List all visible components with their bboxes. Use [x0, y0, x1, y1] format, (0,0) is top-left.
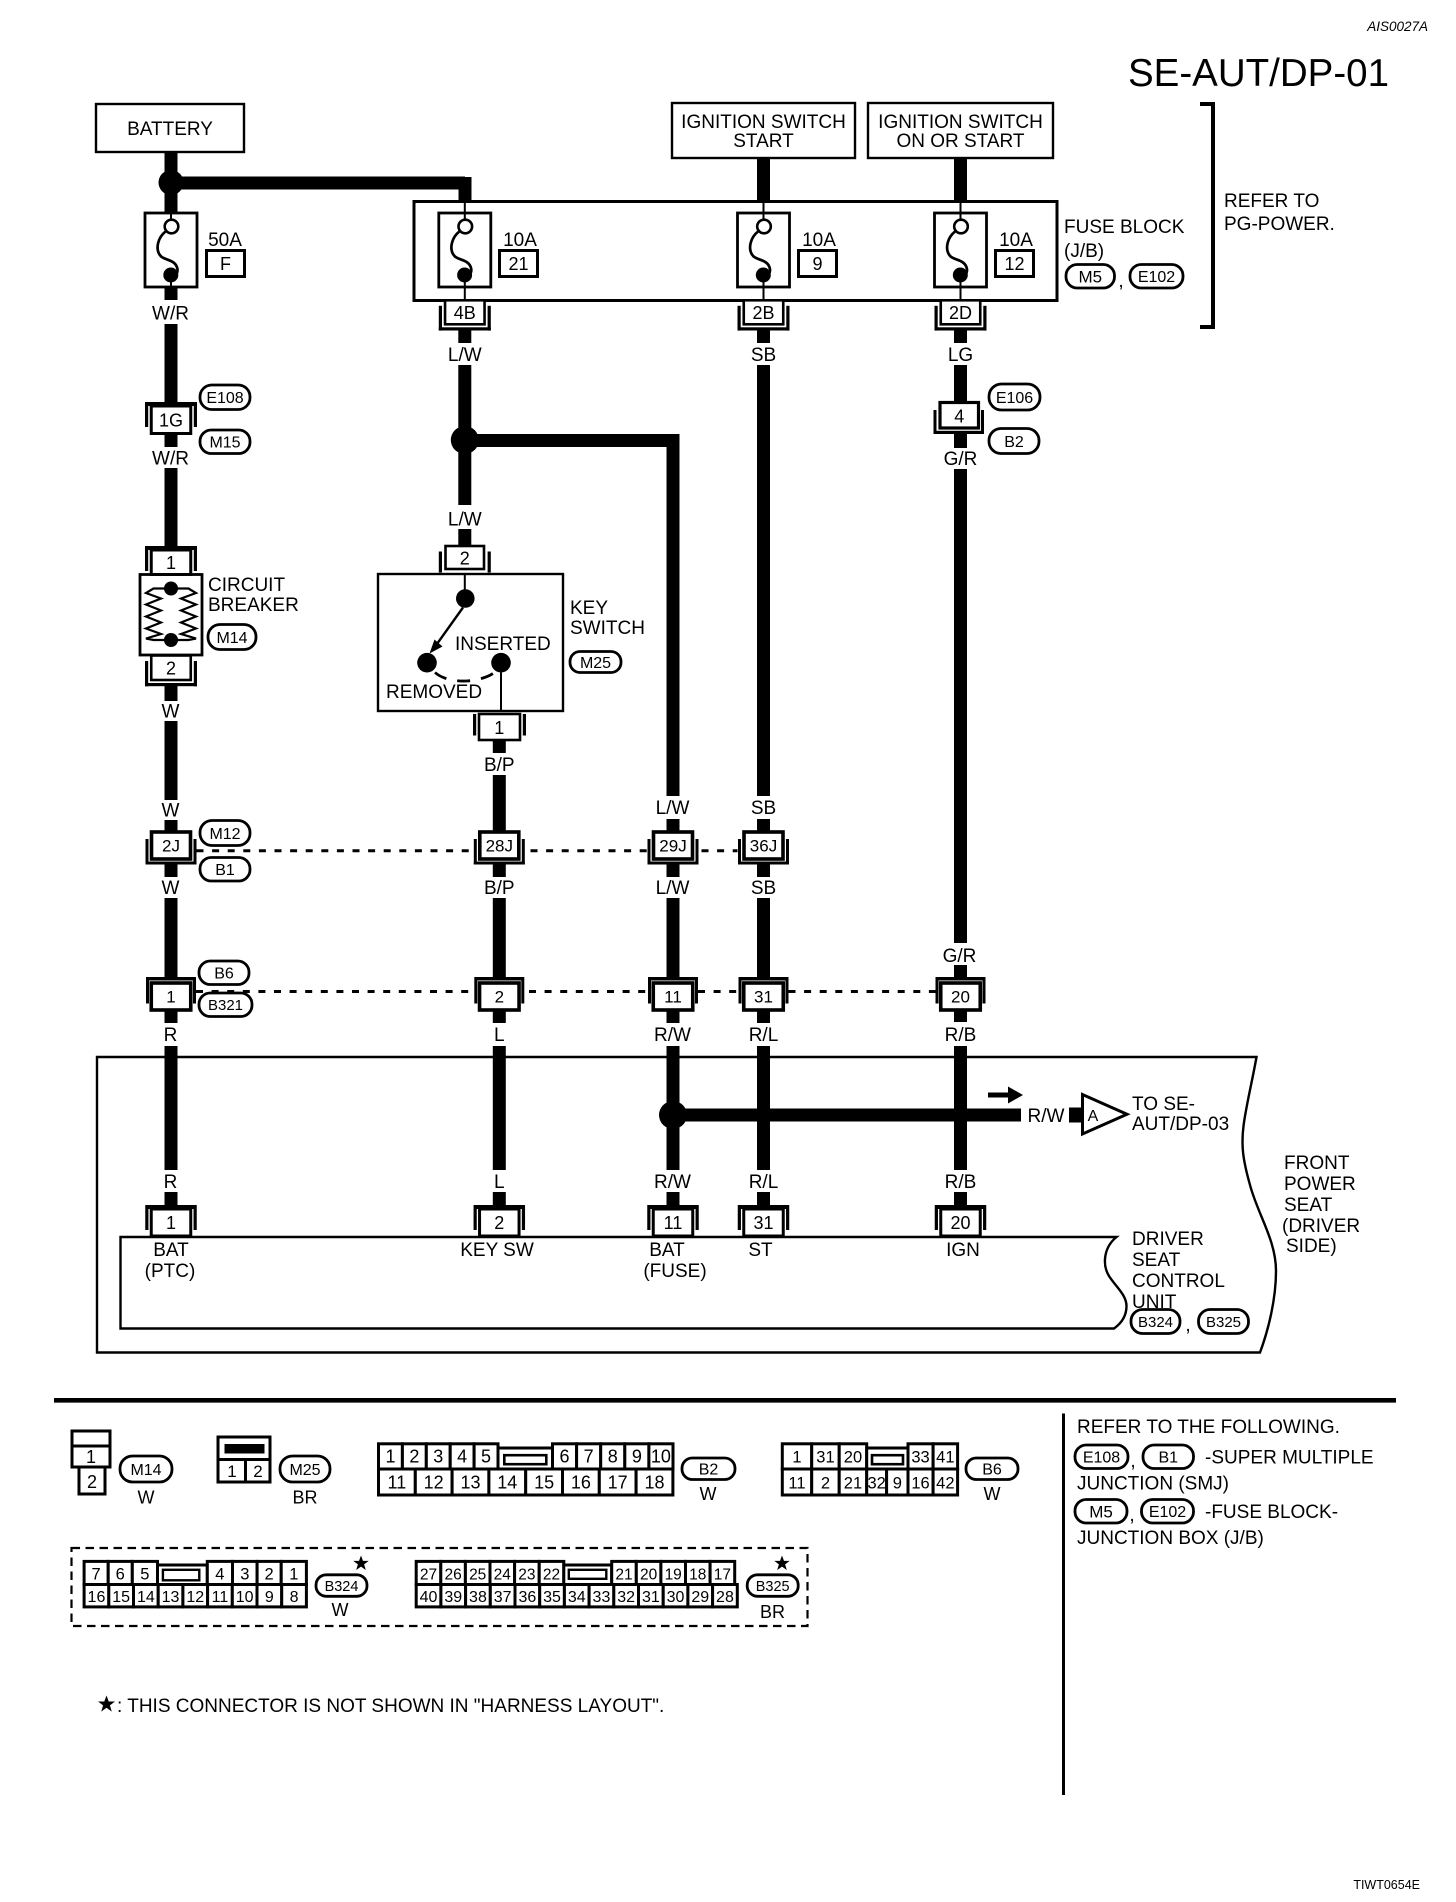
svg-text:R/W: R/W: [1028, 1106, 1065, 1127]
svg-text:2D: 2D: [949, 303, 972, 323]
svg-text:36: 36: [518, 1589, 536, 1606]
svg-text:B325: B325: [1206, 1314, 1241, 1331]
wire L/W down to junction: [458, 365, 471, 440]
seat connector 11: [647, 1205, 699, 1236]
svg-text:6: 6: [116, 1565, 125, 1583]
vertical separator: [1062, 1414, 1065, 1796]
svg-text:28J: 28J: [486, 837, 513, 856]
svg-text:W/R: W/R: [152, 304, 189, 325]
svg-text:FUSE BLOCK: FUSE BLOCK: [1064, 217, 1185, 238]
svg-text:4B: 4B: [454, 303, 476, 323]
wire stub below connector 31: [757, 1010, 770, 1023]
svg-text:TIWT0654E: TIWT0654E: [1353, 1878, 1420, 1892]
wire B/P to connector 2: [493, 898, 506, 978]
wire stub above 36J: [757, 819, 770, 833]
svg-text:11: 11: [212, 1589, 229, 1606]
svg-text:E108: E108: [206, 390, 243, 407]
svg-text:2B: 2B: [752, 303, 774, 323]
wire R/B inside: [954, 1057, 967, 1170]
svg-text:33: 33: [593, 1589, 611, 1606]
svg-text:34: 34: [568, 1589, 586, 1606]
wire W/R stub below fusible link: [165, 287, 178, 300]
svg-text:BR: BR: [292, 1488, 317, 1508]
svg-text:42: 42: [936, 1474, 954, 1492]
connector oval B1: [200, 858, 250, 882]
wire battery to junction: [165, 152, 178, 172]
svg-text:BAT: BAT: [153, 1240, 189, 1261]
wire R/W inside: [667, 1057, 680, 1170]
svg-text:PG-POWER.: PG-POWER.: [1224, 214, 1335, 235]
svg-text:B2: B2: [699, 1462, 719, 1479]
svg-text:2: 2: [494, 1213, 504, 1233]
wire SB below 2B: [757, 331, 770, 344]
svg-text:41: 41: [936, 1449, 954, 1467]
wire stub above seat conn 20: [954, 1192, 967, 1206]
wire stub below 1G: [165, 434, 178, 448]
wire L/W below 4B: [458, 331, 471, 344]
wire stub above seat conn 31: [757, 1192, 770, 1206]
svg-text:M14: M14: [216, 630, 247, 647]
svg-text:M25: M25: [580, 655, 611, 672]
connector oval B6 list: [966, 1458, 1018, 1480]
svg-text:39: 39: [444, 1589, 462, 1606]
junction dot L/W branch: [451, 426, 479, 454]
wire W to connector 1: [165, 898, 178, 978]
svg-text:INSERTED: INSERTED: [455, 634, 551, 655]
ignition switch start box: [672, 103, 855, 158]
svg-text:R/W: R/W: [654, 1172, 691, 1193]
connector 4B: [464, 287, 466, 300]
svg-text:1: 1: [494, 718, 504, 738]
connector oval M5: [1066, 265, 1115, 289]
wire stub above seat conn 11: [667, 1192, 680, 1206]
wire stub below SMJ 4: [954, 434, 967, 448]
svg-text:,: ,: [1118, 271, 1123, 292]
svg-text:21: 21: [615, 1566, 632, 1583]
label box 12: [996, 251, 1034, 277]
svg-text:36J: 36J: [750, 837, 777, 856]
svg-text:W: W: [332, 1600, 349, 1620]
fuse 9 10A: [738, 202, 790, 288]
svg-text:(PTC): (PTC): [145, 1261, 196, 1282]
svg-text:,: ,: [1129, 1505, 1134, 1526]
svg-text:13: 13: [460, 1472, 480, 1492]
svg-text:SB: SB: [751, 798, 776, 819]
wire branch to right and down: [465, 434, 673, 450]
svg-text:2: 2: [166, 658, 176, 678]
wire W down: [165, 721, 178, 800]
svg-text:REFER TO THE FOLLOWING.: REFER TO THE FOLLOWING.: [1077, 1417, 1340, 1438]
SMJ junction 2J: [146, 832, 197, 865]
svg-text:(FUSE): (FUSE): [643, 1261, 706, 1282]
connector 2 key switch: [439, 546, 491, 573]
SMJ junction 1: [146, 977, 196, 1010]
connector B2 pinout: [379, 1444, 674, 1495]
svg-text:IGNITION SWITCH: IGNITION SWITCH: [681, 112, 846, 133]
svg-text:W: W: [984, 1484, 1001, 1504]
svg-text:: THIS CONNECTOR IS NOT SHOWN: : THIS CONNECTOR IS NOT SHOWN IN "HARNES…: [117, 1696, 664, 1717]
wire L inside: [493, 1057, 506, 1170]
svg-text:R/B: R/B: [945, 1172, 977, 1193]
svg-text:19: 19: [665, 1566, 682, 1583]
connector B6 pinout: [782, 1444, 957, 1495]
svg-text:L/W: L/W: [656, 798, 690, 819]
svg-text:CIRCUIT: CIRCUIT: [208, 575, 285, 596]
svg-text:31: 31: [816, 1449, 834, 1467]
SMJ junction 2: [474, 977, 524, 1010]
label FUSE BLOCK (J/B): [1064, 217, 1185, 262]
svg-text:M25: M25: [289, 1462, 320, 1479]
seat connector 2: [474, 1205, 526, 1236]
svg-text:20: 20: [844, 1449, 862, 1467]
svg-text:W: W: [162, 702, 180, 723]
svg-text:10: 10: [236, 1589, 254, 1606]
svg-text:27: 27: [420, 1566, 437, 1583]
svg-text:TO SE-: TO SE-: [1132, 1094, 1195, 1115]
svg-text:L/W: L/W: [656, 878, 690, 899]
junction dot battery feed: [159, 170, 184, 195]
wire R into seat box: [165, 1046, 178, 1058]
svg-text:1: 1: [166, 1213, 176, 1233]
wire stub above 20: [954, 965, 967, 978]
front power seat box: [97, 1057, 1276, 1353]
svg-text:31: 31: [642, 1589, 660, 1606]
svg-text:BREAKER: BREAKER: [208, 595, 299, 616]
wire stub above key switch connector: [458, 529, 471, 546]
wire B/P down to 28J: [493, 775, 506, 833]
svg-text:,: ,: [1130, 1451, 1135, 1472]
svg-text:10: 10: [651, 1447, 671, 1467]
wire R/B into seat box: [954, 1046, 967, 1058]
wire battery junction to fuse 21 branch: [176, 177, 465, 202]
svg-text:BATTERY: BATTERY: [127, 119, 213, 140]
wire stub above 2J: [165, 820, 178, 833]
svg-text:5: 5: [481, 1447, 491, 1467]
footnote star: [98, 1696, 115, 1712]
label box 21: [500, 251, 538, 277]
svg-text:BR: BR: [760, 1602, 785, 1622]
svg-text:1: 1: [792, 1449, 801, 1467]
connector oval E106: [989, 384, 1040, 410]
svg-text:11: 11: [788, 1474, 805, 1492]
connector oval E102: [1130, 265, 1183, 289]
svg-text:R/L: R/L: [749, 1025, 779, 1046]
connector 2D: [960, 287, 962, 300]
svg-text:10A: 10A: [503, 230, 537, 251]
svg-text:30: 30: [667, 1589, 685, 1606]
wire G/R long down: [954, 469, 967, 943]
fuse 12 10A: [935, 202, 987, 288]
label KEY SWITCH: [570, 598, 645, 639]
svg-text:B324: B324: [325, 1579, 359, 1595]
svg-text:B6: B6: [982, 1462, 1002, 1479]
wire stub below 2J: [165, 864, 178, 877]
svg-text:-SUPER MULTIPLE: -SUPER MULTIPLE: [1205, 1448, 1374, 1469]
wire stub above seat conn 2: [493, 1192, 506, 1206]
driver seat control unit box: [121, 1237, 1127, 1329]
svg-text:R/L: R/L: [749, 1172, 779, 1193]
ignition switch on-or-start box: [868, 103, 1053, 158]
svg-text:B/P: B/P: [484, 755, 515, 776]
svg-text:AUT/DP-03: AUT/DP-03: [1132, 1114, 1229, 1135]
svg-text:M5: M5: [1089, 1502, 1113, 1521]
svg-text:4: 4: [457, 1447, 467, 1467]
connector oval B1 legend: [1143, 1445, 1194, 1469]
svg-text:9: 9: [265, 1589, 274, 1606]
connector oval B325 list: [747, 1575, 798, 1597]
svg-text:M14: M14: [130, 1462, 161, 1479]
wire ignition start to fuse block: [757, 158, 770, 202]
label TO SE-AUT/DP-03: [1132, 1094, 1229, 1135]
svg-text:15: 15: [534, 1472, 554, 1492]
svg-text:R/B: R/B: [945, 1025, 977, 1046]
bracket refer to PG-POWER: [1200, 104, 1213, 327]
connector M14 pinout: [72, 1431, 110, 1494]
wire R/W into seat box: [667, 1046, 680, 1058]
svg-text:9: 9: [812, 254, 822, 274]
svg-text:2: 2: [821, 1474, 830, 1492]
SMJ junction 29J: [648, 832, 699, 865]
connector oval B324 list: [316, 1575, 367, 1597]
svg-text:SIDE): SIDE): [1286, 1236, 1337, 1257]
svg-text:JUNCTION (SMJ): JUNCTION (SMJ): [1077, 1474, 1229, 1495]
svg-text:1: 1: [289, 1565, 298, 1583]
junction dot R/W takeoff: [659, 1101, 687, 1129]
svg-text:17: 17: [714, 1566, 731, 1583]
svg-text:15: 15: [112, 1589, 130, 1606]
svg-text:2: 2: [87, 1472, 97, 1492]
seat connector 1: [145, 1205, 197, 1236]
wire stub above 29J: [667, 819, 680, 833]
svg-text:L: L: [494, 1025, 505, 1046]
wire B/P stub: [493, 740, 506, 753]
star B324: [353, 1556, 368, 1571]
wire W/R to circuit breaker: [165, 468, 178, 546]
svg-text:1: 1: [166, 553, 176, 573]
seat connector 31: [738, 1205, 790, 1236]
wire L/W branch down: [667, 447, 680, 796]
wire SB down: [757, 365, 770, 796]
svg-text:ST: ST: [748, 1240, 773, 1261]
svg-text:IGN: IGN: [946, 1240, 980, 1261]
svg-text:22: 22: [543, 1566, 560, 1583]
wire stub below 28J: [493, 864, 506, 877]
svg-text:E108: E108: [1083, 1450, 1120, 1467]
svg-text:AIS0027A: AIS0027A: [1366, 19, 1428, 34]
svg-text:B1: B1: [215, 862, 235, 879]
connector oval E102 legend: [1142, 1500, 1194, 1524]
svg-text:1: 1: [166, 988, 175, 1007]
SMJ junction 31: [739, 977, 789, 1010]
svg-text:23: 23: [518, 1566, 535, 1583]
wire R/L into seat box: [757, 1046, 770, 1058]
svg-text:6: 6: [560, 1447, 570, 1467]
off-page triangle A to SE-AUT/DP-03: [1083, 1095, 1128, 1135]
svg-text:B1: B1: [1158, 1450, 1178, 1467]
label BAT (PTC): [145, 1240, 196, 1282]
svg-text:W: W: [162, 878, 180, 899]
svg-text:W: W: [700, 1484, 717, 1504]
svg-text:A: A: [1088, 1108, 1099, 1125]
wire L/W to key switch: [458, 450, 471, 505]
connector oval B2 list: [682, 1458, 735, 1480]
connector M25 pinout: [218, 1437, 270, 1482]
circuit breaker M14 box: [140, 575, 202, 656]
svg-text:4: 4: [215, 1565, 224, 1583]
svg-text:16: 16: [88, 1589, 106, 1606]
svg-text:8: 8: [608, 1447, 618, 1467]
wire R inside: [165, 1057, 178, 1170]
svg-text:L/W: L/W: [448, 510, 482, 531]
SMJ connector 1G: [145, 402, 197, 434]
connector oval M15: [200, 430, 250, 454]
svg-text:B2: B2: [1004, 434, 1024, 451]
connector B324 pinout: [84, 1561, 306, 1607]
wire LG below 2D: [954, 331, 967, 344]
label CIRCUIT BREAKER: [208, 575, 299, 616]
label SUPER MULTIPLE JUNCTION: [1077, 1448, 1374, 1495]
label BAT (FUSE): [643, 1240, 706, 1282]
svg-text:20: 20: [640, 1566, 658, 1583]
svg-text:9: 9: [893, 1474, 902, 1492]
svg-text:1G: 1G: [159, 410, 183, 430]
horizontal separator: [54, 1398, 1396, 1403]
svg-text:B324: B324: [1138, 1314, 1173, 1331]
svg-text:37: 37: [494, 1589, 512, 1606]
connector oval B2 smj: [989, 429, 1039, 454]
svg-text:M15: M15: [209, 435, 240, 452]
svg-text:16: 16: [571, 1472, 591, 1492]
svg-text:SB: SB: [751, 878, 776, 899]
svg-text:2: 2: [409, 1447, 419, 1467]
svg-text:8: 8: [290, 1589, 299, 1606]
wire L/W to connector 11: [667, 898, 680, 978]
svg-text:JUNCTION BOX (J/B): JUNCTION BOX (J/B): [1077, 1528, 1264, 1549]
svg-text:-FUSE BLOCK-: -FUSE BLOCK-: [1205, 1502, 1338, 1523]
svg-text:10A: 10A: [802, 230, 836, 251]
wire stub below 29J: [667, 864, 680, 877]
label DRIVER SEAT CONTROL UNIT: [1132, 1229, 1225, 1313]
svg-text:7: 7: [584, 1447, 594, 1467]
svg-text:B325: B325: [756, 1579, 790, 1595]
wire L into seat box: [493, 1046, 506, 1058]
svg-text:1: 1: [227, 1462, 236, 1481]
connector 2B: [763, 287, 765, 300]
svg-text:10A: 10A: [999, 230, 1033, 251]
connector oval M25 list: [280, 1456, 330, 1482]
svg-text:SWITCH: SWITCH: [570, 618, 645, 639]
svg-text:1: 1: [385, 1447, 395, 1467]
wire stub below connector 20: [954, 1009, 967, 1023]
svg-text:B321: B321: [208, 997, 243, 1014]
svg-text:2J: 2J: [162, 837, 180, 856]
wire stub below 36J: [757, 864, 770, 877]
svg-text:POWER: POWER: [1284, 1174, 1356, 1195]
svg-text:E102: E102: [1149, 1504, 1186, 1521]
svg-text:BAT: BAT: [649, 1240, 685, 1261]
svg-text:ON OR START: ON OR START: [896, 131, 1024, 152]
connector oval M14: [208, 625, 256, 650]
svg-text:SE-AUT/DP-01: SE-AUT/DP-01: [1128, 52, 1389, 95]
svg-text:24: 24: [494, 1566, 512, 1583]
svg-text:CONTROL: CONTROL: [1132, 1271, 1225, 1292]
svg-text:21: 21: [844, 1474, 862, 1492]
flow arrow: [988, 1087, 1023, 1104]
svg-text:2: 2: [495, 988, 504, 1007]
connector oval M25: [570, 652, 621, 673]
svg-text:(J/B): (J/B): [1064, 241, 1104, 262]
svg-text:2: 2: [253, 1462, 262, 1481]
svg-text:M5: M5: [1078, 267, 1102, 286]
svg-text:DRIVER: DRIVER: [1132, 1229, 1204, 1250]
svg-text:28: 28: [716, 1589, 734, 1606]
svg-text:5: 5: [140, 1565, 149, 1583]
svg-text:35: 35: [543, 1589, 561, 1606]
svg-text:38: 38: [469, 1589, 487, 1606]
svg-text:2: 2: [460, 549, 470, 569]
svg-text:R: R: [164, 1172, 178, 1193]
wire W/R down to 1G: [165, 324, 178, 402]
battery box: [96, 104, 244, 152]
svg-text:M12: M12: [209, 826, 240, 843]
svg-text:14: 14: [137, 1589, 155, 1606]
svg-text:W: W: [138, 1488, 155, 1508]
svg-text:1: 1: [86, 1447, 96, 1467]
svg-text:B6: B6: [214, 966, 234, 983]
wire R/W branch to A: [673, 1109, 1021, 1122]
label REFER TO PG-POWER: [1224, 191, 1335, 235]
fusible link F 50A: [145, 213, 197, 287]
connector oval E108: [200, 385, 250, 410]
wire SB to connector 31: [757, 898, 770, 978]
wire LG down to SMJ 4: [954, 365, 967, 403]
svg-text:E102: E102: [1138, 269, 1175, 286]
svg-text:KEY SW: KEY SW: [460, 1240, 534, 1261]
svg-text:3: 3: [240, 1565, 249, 1583]
svg-text:40: 40: [420, 1589, 438, 1606]
svg-text:2: 2: [265, 1565, 274, 1583]
svg-text:12: 12: [186, 1589, 204, 1606]
wire stub into A: [1069, 1108, 1082, 1123]
wire junction down to fusible link F: [165, 190, 178, 213]
connector oval B6: [199, 961, 249, 985]
svg-text:W/R: W/R: [152, 449, 189, 470]
svg-text:11: 11: [664, 1213, 683, 1233]
label box F: [207, 251, 245, 277]
wire R/L inside: [757, 1057, 770, 1170]
SMJ junction 20: [936, 977, 986, 1010]
svg-text:31: 31: [754, 988, 773, 1007]
connector oval B324 unit: [1131, 1310, 1180, 1334]
label FRONT POWER SEAT (DRIVER SIDE): [1282, 1153, 1360, 1257]
svg-text:FRONT: FRONT: [1284, 1153, 1350, 1174]
svg-text:L/W: L/W: [448, 345, 482, 366]
svg-text:18: 18: [644, 1472, 664, 1492]
svg-text:32: 32: [617, 1589, 635, 1606]
connector oval B325 unit: [1199, 1310, 1249, 1334]
svg-text:13: 13: [162, 1589, 180, 1606]
svg-text:31: 31: [753, 1213, 773, 1233]
connector oval M12: [200, 821, 250, 846]
svg-text:W: W: [162, 801, 180, 822]
connector oval M5 legend: [1075, 1500, 1127, 1524]
connector oval M14 list: [120, 1456, 172, 1482]
svg-text:7: 7: [92, 1565, 101, 1583]
svg-text:25: 25: [469, 1566, 486, 1583]
svg-text:32: 32: [867, 1474, 885, 1492]
wire stub below connector 11: [667, 1010, 680, 1023]
svg-text:21: 21: [508, 254, 528, 274]
